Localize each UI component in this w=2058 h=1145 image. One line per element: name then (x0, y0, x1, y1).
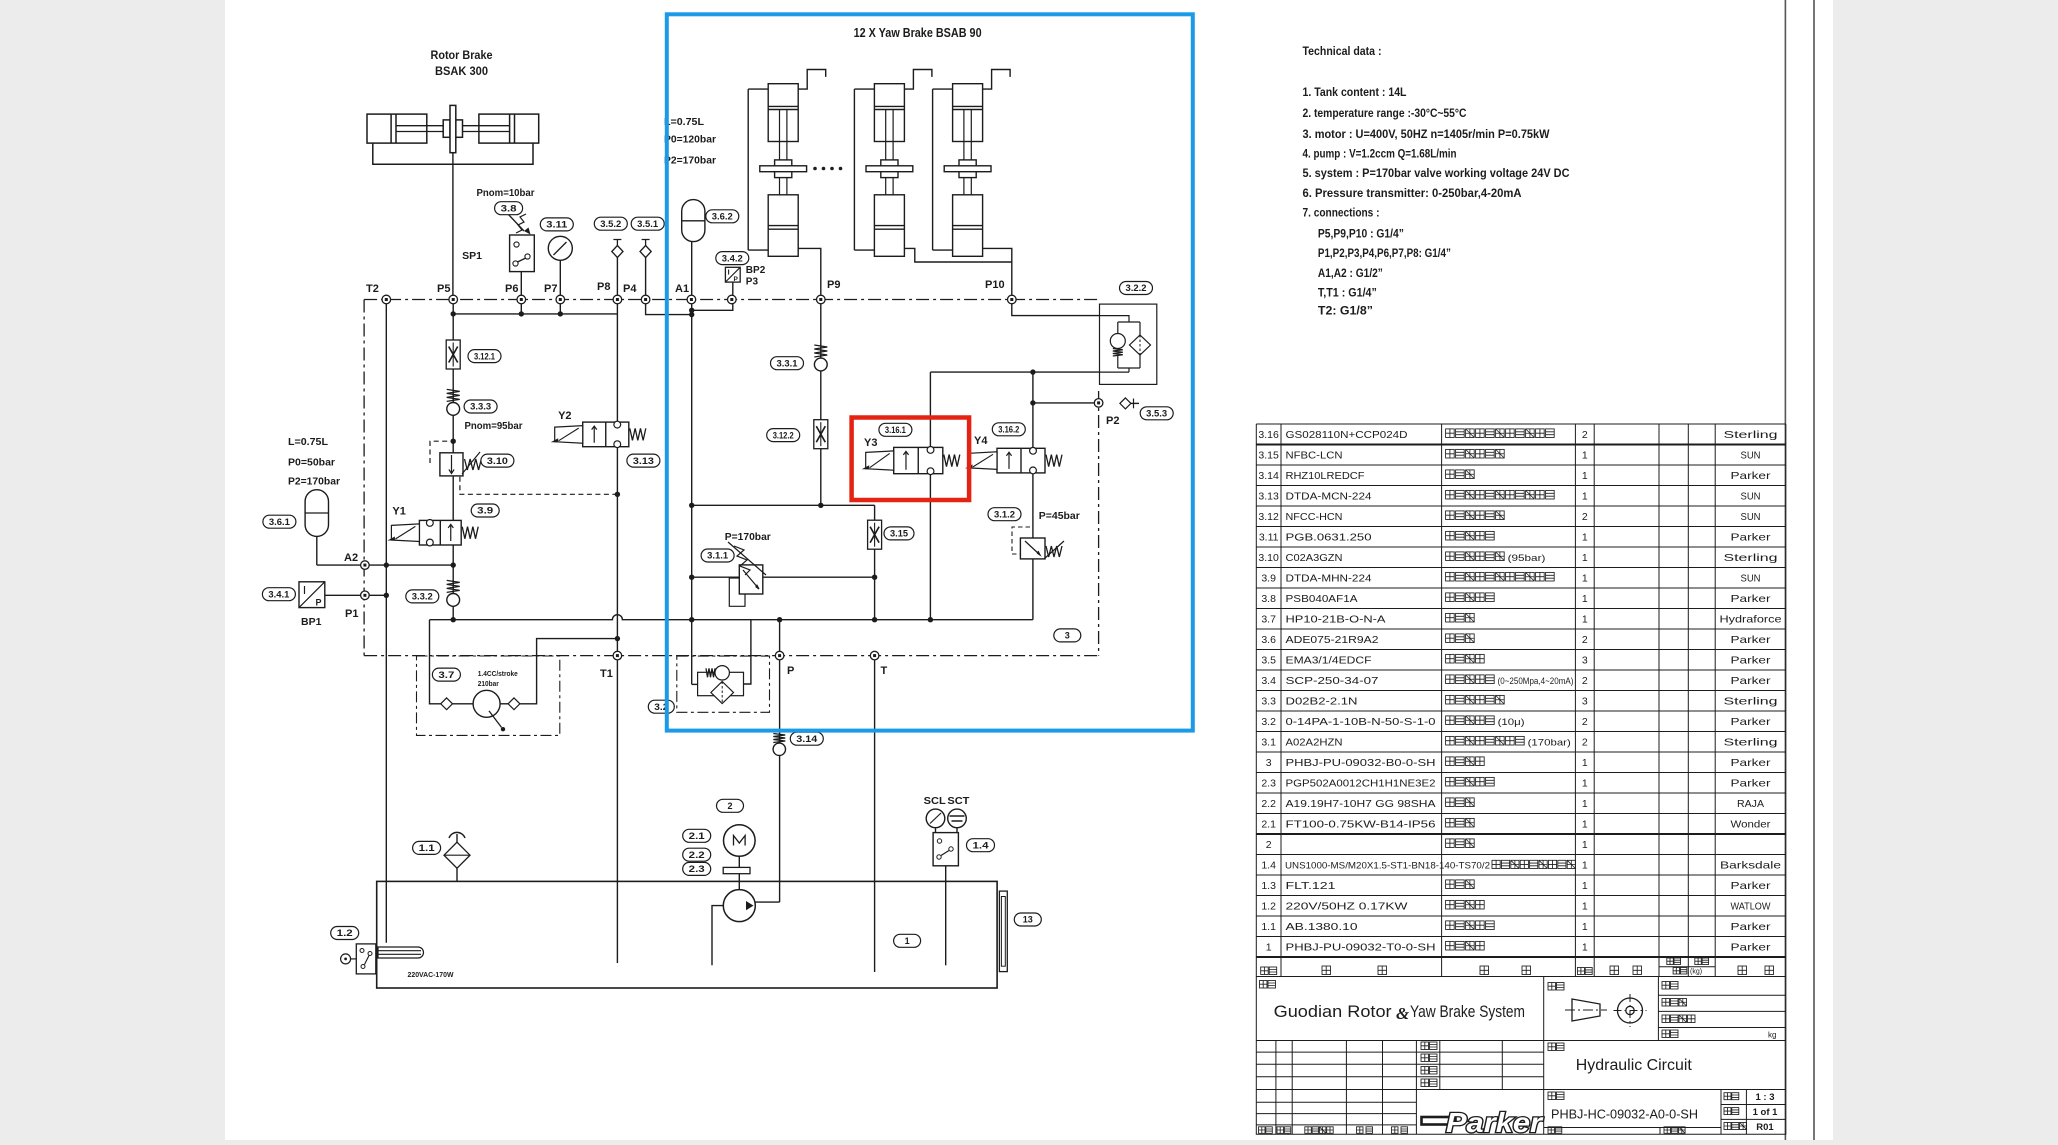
svg-text:P9: P9 (827, 279, 840, 291)
svg-text:3: 3 (1266, 757, 1272, 769)
node port P3 (728, 295, 737, 304)
label 3.4.2 (716, 252, 749, 265)
relief valve 3.1.2 P=45bar (1012, 527, 1064, 559)
svg-text:1: 1 (905, 936, 910, 946)
label 3.1.2 (988, 508, 1021, 521)
svg-text:A19.19H7-10H7 GG 98SHA: A19.19H7-10H7 GG 98SHA (1286, 798, 1436, 810)
solenoid valve Y2 (3.13) (551, 421, 646, 447)
svg-text:3.9: 3.9 (1261, 573, 1276, 585)
check valve 3.14 (773, 734, 785, 756)
svg-text:(95bar): (95bar) (1508, 553, 1546, 564)
svg-text:2.3: 2.3 (1261, 778, 1276, 790)
svg-text:1: 1 (1582, 552, 1588, 564)
wire hand pump internal right (500, 703, 508, 705)
svg-text:Y1: Y1 (392, 505, 405, 517)
wire SCT stem (956, 828, 958, 833)
wire SCL stem (935, 828, 937, 833)
wire Y2 pilot drain dashed (460, 477, 618, 495)
svg-text:DTDA-MCN-224: DTDA-MCN-224 (1286, 491, 1372, 503)
temp gauge SCT (948, 809, 967, 828)
label 3.3.1 (771, 357, 804, 370)
svg-text:3.4: 3.4 (1261, 675, 1276, 687)
pressure reducing valve 3.10 (440, 452, 482, 476)
svg-text:Sterling: Sterling (1724, 429, 1778, 441)
svg-text:SUN: SUN (1741, 511, 1761, 523)
wire manifold dash-dot top boundary (364, 299, 1099, 301)
svg-text:HP10-21B-O-N-A: HP10-21B-O-N-A (1286, 614, 1386, 626)
wire T column to tank (874, 656, 876, 972)
svg-text:Parker: Parker (1731, 593, 1772, 605)
svg-text:BP2: BP2 (746, 265, 766, 276)
wire SP1 drop (520, 272, 522, 314)
label 3.10 (481, 454, 514, 467)
svg-text:1.2: 1.2 (1261, 901, 1276, 913)
svg-text:Parker: Parker (1731, 757, 1772, 769)
svg-text:D02B2-2.1N: D02B2-2.1N (1286, 696, 1358, 708)
svg-text:3.14: 3.14 (1258, 470, 1279, 482)
svg-text:Parker: Parker (1731, 921, 1772, 933)
svg-text:Wonder: Wonder (1731, 819, 1772, 831)
rotor brake BSAK 300 caliper assembly (367, 105, 539, 164)
svg-text:Hydraforce: Hydraforce (1720, 614, 1782, 626)
svg-text:2.3: 2.3 (689, 864, 705, 874)
wire line B (692, 576, 875, 578)
svg-text:3.13: 3.13 (1258, 491, 1279, 503)
wire breather drop (456, 868, 458, 881)
svg-text:A1,A2 : G1/2”: A1,A2 : G1/2” (1318, 266, 1383, 280)
svg-text:&: & (1396, 1004, 1410, 1023)
svg-text:AB.1380.10: AB.1380.10 (1286, 921, 1358, 933)
svg-text:T1: T1 (600, 668, 613, 680)
svg-text:Parker: Parker (1731, 532, 1772, 544)
hand pump 3.7 (473, 690, 505, 731)
svg-text:3.5.3: 3.5.3 (1146, 409, 1167, 419)
svg-text:Y4: Y4 (974, 435, 988, 447)
throttle valve 3.15 (868, 520, 882, 549)
svg-text:Pnom=95bar: Pnom=95bar (465, 420, 523, 432)
svg-text:A1: A1 (675, 283, 689, 295)
svg-text:2.2: 2.2 (1261, 798, 1276, 810)
svg-text:SCL: SCL (924, 796, 946, 807)
accumulator 3.6.2 (682, 200, 705, 242)
svg-text:P1,P2,P3,P4,P6,P7,P8: G1/4”: P1,P2,P3,P4,P6,P7,P8: G1/4” (1318, 246, 1451, 260)
svg-text:Parker: Parker (1731, 942, 1772, 954)
svg-text:P=170bar: P=170bar (725, 531, 771, 543)
label 3.8 (495, 202, 523, 215)
svg-text:Parker: Parker (1731, 634, 1772, 646)
svg-text:FLT.121: FLT.121 (1286, 880, 1336, 892)
wire line A (692, 504, 875, 506)
svg-text:1: 1 (1582, 532, 1588, 544)
wire yaw group2 drain (905, 248, 1012, 262)
svg-text:(10μ): (10μ) (1498, 717, 1525, 728)
node port P10 (1008, 295, 1017, 304)
svg-text:3.12.2: 3.12.2 (773, 430, 794, 440)
svg-text:SUN: SUN (1741, 491, 1761, 503)
wire manifold boundary left edge (363, 300, 365, 656)
svg-text:1 : 3: 1 : 3 (1755, 1092, 1774, 1103)
label 3.7 (432, 668, 460, 681)
svg-text:1: 1 (1582, 880, 1588, 892)
svg-text:PHBJ-PU-09032-T0-0-SH: PHBJ-PU-09032-T0-0-SH (1286, 942, 1436, 954)
label 2.3 (683, 862, 711, 875)
svg-text:2: 2 (1582, 675, 1588, 687)
label 3.6.1 (263, 515, 296, 528)
svg-text:4. pump : V=1.2ccm Q=1.68L/min: 4. pump : V=1.2ccm Q=1.68L/min (1303, 147, 1457, 161)
svg-text:DTDA-MHN-224: DTDA-MHN-224 (1286, 573, 1372, 585)
wire P5 column (452, 300, 454, 620)
pressure switch SP1 (3.8) (508, 214, 534, 272)
node port T1 (613, 651, 622, 660)
wire P3 link (692, 282, 733, 310)
svg-text:3.16: 3.16 (1258, 429, 1279, 441)
node port P1 (361, 591, 370, 600)
label 3.12.1 (468, 350, 501, 363)
svg-text:PSB040AF1A: PSB040AF1A (1286, 593, 1358, 605)
svg-text:2: 2 (1582, 511, 1588, 523)
svg-text:3.15: 3.15 (1258, 450, 1279, 462)
svg-text:3. motor : U=400V, 50HZ n=14: 3. motor : U=400V, 50HZ n=1405r/min P=0.… (1303, 127, 1551, 141)
wire manifold boundary bottom edge (364, 655, 1099, 657)
svg-text:ADE075-21R9A2: ADE075-21R9A2 (1286, 634, 1379, 646)
wire P9 column (820, 300, 822, 506)
svg-text:1: 1 (1266, 942, 1272, 954)
node port A1 (687, 295, 696, 304)
node port T (870, 651, 879, 660)
wire Y4 column (1032, 372, 1034, 620)
svg-text:Y3: Y3 (864, 437, 877, 449)
svg-text:Sterling: Sterling (1724, 737, 1778, 749)
gear pump 2.3 (723, 890, 755, 922)
svg-text:3.4.1: 3.4.1 (268, 589, 289, 599)
node port P5 (449, 295, 458, 304)
svg-text:Hydraulic Circuit: Hydraulic Circuit (1576, 1057, 1693, 1074)
svg-text:3.3: 3.3 (1261, 696, 1276, 708)
Parker logo (1422, 1107, 1544, 1138)
svg-text:NFCC-HCN: NFCC-HCN (1286, 511, 1343, 523)
svg-text:3.4.2: 3.4.2 (722, 253, 743, 263)
yaw brake cylinder group 1 (748, 70, 826, 257)
svg-text:1.1: 1.1 (419, 843, 435, 853)
svg-text:3.6: 3.6 (1261, 634, 1276, 646)
wire 3.10 pilot dashed (430, 441, 453, 463)
svg-text:3.2: 3.2 (1261, 716, 1276, 728)
svg-text:2: 2 (1582, 429, 1588, 441)
yaw brake cylinder group 2 (854, 70, 932, 257)
svg-text:3.3.1: 3.3.1 (777, 358, 798, 368)
svg-text:2: 2 (1266, 839, 1272, 851)
svg-text:EMA3/1/4EDCF: EMA3/1/4EDCF (1286, 655, 1372, 667)
svg-text:P7: P7 (544, 283, 557, 295)
svg-text:(0~250Mpa,4~20mA): (0~250Mpa,4~20mA) (1498, 676, 1574, 687)
label 3.3.2 (406, 590, 439, 603)
svg-text:Parker: Parker (1731, 778, 1772, 790)
solenoid valve Y4 (3.16.2) (965, 447, 1062, 473)
svg-text:1: 1 (1582, 470, 1588, 482)
svg-text:2.1: 2.1 (1261, 819, 1276, 831)
svg-text:Parker: Parker (1731, 716, 1772, 728)
svg-text:T2: T2 (366, 283, 379, 295)
pressure transmitter BP2 (3.4.2) (725, 267, 740, 283)
label 2.2 (683, 848, 711, 861)
title block texts (1260, 981, 1276, 989)
label 3.13 (627, 454, 660, 467)
label 13 (1014, 913, 1041, 926)
svg-text:SUN: SUN (1741, 450, 1761, 462)
svg-text:3: 3 (1582, 655, 1588, 667)
wire P2 line (1033, 402, 1099, 404)
svg-text:1.4: 1.4 (1261, 860, 1276, 872)
svg-text:1: 1 (1582, 839, 1588, 851)
svg-text:Technical data :: Technical data : (1303, 44, 1382, 58)
svg-text:3.13: 3.13 (633, 456, 654, 466)
label 3.5.2 (594, 217, 627, 230)
svg-text:PHBJ-HC-09032-A0-0-SH: PHBJ-HC-09032-A0-0-SH (1551, 1107, 1698, 1122)
node port P8 (613, 295, 622, 304)
svg-text:6. Pressure transmitter: 0-25: 6. Pressure transmitter: 0-250bar,4-20mA (1303, 186, 1522, 200)
svg-text:3.12.1: 3.12.1 (474, 351, 495, 361)
svg-text:Barksdale: Barksdale (1720, 860, 1781, 872)
node port P (775, 651, 784, 660)
label 3.1.1 (701, 549, 734, 562)
svg-text:3.1.1: 3.1.1 (707, 551, 728, 561)
svg-text:3.9: 3.9 (477, 506, 493, 516)
svg-text:kg: kg (1768, 1031, 1776, 1040)
node port P4 (641, 295, 650, 304)
label 3.12.2 (767, 429, 800, 442)
svg-text:3.11: 3.11 (1259, 532, 1279, 544)
check valve 3.3.3 (447, 389, 460, 415)
svg-text:13: 13 (1023, 915, 1033, 925)
svg-text:1: 1 (1582, 757, 1588, 769)
svg-text:1: 1 (1582, 491, 1588, 503)
svg-text:Parker: Parker (1731, 880, 1772, 892)
wire accumulator 3.6.1 drop (316, 536, 318, 565)
svg-text:210bar: 210bar (478, 681, 499, 688)
svg-text:NFBC-LCN: NFBC-LCN (1286, 450, 1343, 462)
svg-text:A2: A2 (344, 552, 358, 564)
pump line filter 3.2 group (677, 656, 770, 712)
wire A2 line (317, 564, 453, 566)
svg-text:3.2.2: 3.2.2 (1126, 283, 1147, 293)
svg-text:Rotor Brake: Rotor Brake (431, 48, 493, 62)
label 3.14 (790, 732, 823, 745)
high pressure filter 3.2.2 (1100, 304, 1157, 384)
svg-text:220V/50HZ 0.17KW: 220V/50HZ 0.17KW (1286, 901, 1408, 913)
svg-text:P: P (316, 598, 322, 608)
label 2.1 (683, 829, 711, 842)
wire rotor brake to P5 (452, 153, 454, 300)
level gauge SCL (926, 809, 945, 828)
svg-text:1: 1 (1582, 573, 1588, 585)
svg-text:1.4: 1.4 (973, 840, 989, 850)
svg-text:3.7: 3.7 (438, 670, 454, 680)
electric motor 2.1 (724, 825, 756, 857)
pressure gauge 3.11 (548, 236, 572, 260)
pressure transmitter BP1 (3.4.1) (299, 582, 325, 608)
svg-text:Parker: Parker (1731, 675, 1772, 687)
svg-text:3: 3 (1065, 631, 1070, 641)
label 3.16.2 (992, 423, 1025, 436)
svg-text:3.5.1: 3.5.1 (637, 219, 658, 229)
svg-text:2: 2 (1582, 716, 1588, 728)
svg-text:SCP-250-34-07: SCP-250-34-07 (1286, 675, 1379, 687)
svg-text:220VAC-170W: 220VAC-170W (408, 970, 455, 979)
svg-text:3.5.2: 3.5.2 (600, 219, 621, 229)
svg-text:3.10: 3.10 (1258, 552, 1279, 564)
label 3.2.2 (1120, 282, 1153, 295)
svg-text:Yaw Brake System: Yaw Brake System (1410, 1002, 1525, 1021)
svg-text:P10: P10 (985, 279, 1005, 291)
hand pump 3.7 dashed enclosure (417, 656, 560, 735)
svg-text:7. connections :: 7. connections : (1303, 206, 1380, 220)
level/temperature switch 1.4 (933, 833, 958, 866)
wire manifold boundary right edge (1098, 391, 1100, 656)
wire hand pump suction link (520, 639, 618, 704)
svg-text:3.5: 3.5 (1261, 655, 1276, 667)
svg-text:3.6.1: 3.6.1 (269, 517, 290, 527)
svg-text:P0=50bar: P0=50bar (288, 457, 335, 469)
svg-text:Pnom=10bar: Pnom=10bar (477, 187, 535, 199)
svg-text:PGP502A0012CH1H1NE3E2: PGP502A0012CH1H1NE3E2 (1286, 778, 1436, 790)
svg-text:2. temperature range :-30°C~55: 2. temperature range :-30°C~55°C (1303, 106, 1467, 120)
label 3.9 (471, 504, 499, 517)
svg-text:R01: R01 (1756, 1122, 1774, 1133)
tank 1 (377, 881, 997, 988)
wire T1 column (616, 257, 618, 963)
svg-text:FT100-0.75KW-B14-IP56: FT100-0.75KW-B14-IP56 (1286, 819, 1436, 831)
svg-text:(170bar): (170bar) (1528, 738, 1571, 749)
svg-text:P2=170bar: P2=170bar (288, 476, 340, 488)
wire hand pump internal left (453, 703, 474, 705)
node port P9 (817, 295, 826, 304)
svg-text:PHBJ-PU-09032-B0-0-SH: PHBJ-PU-09032-B0-0-SH (1286, 757, 1436, 769)
svg-text:Sterling: Sterling (1724, 552, 1778, 564)
svg-text:WATLOW: WATLOW (1731, 901, 1771, 913)
red highlight box around Y3 (852, 418, 970, 501)
svg-text:P6: P6 (505, 283, 518, 295)
label 3.2 (648, 700, 674, 713)
svg-text:3.3.2: 3.3.2 (412, 592, 433, 602)
dots between cylinder groups (813, 167, 817, 171)
svg-text:12 X Yaw Brake BSAB 90: 12 X Yaw Brake BSAB 90 (854, 26, 982, 40)
node port P6 (517, 295, 526, 304)
svg-text:2.1: 2.1 (689, 831, 705, 841)
svg-text:5. system : P=170bar valve w: 5. system : P=170bar valve working volta… (1303, 166, 1570, 180)
svg-text:UNS1000-MS/M20X1.5-ST1-BN18-14: UNS1000-MS/M20X1.5-ST1-BN18-140-TS70/2 (1285, 861, 1490, 872)
svg-text:1: 1 (1582, 614, 1588, 626)
wire 3.15 column (874, 505, 876, 619)
svg-text:T: T (881, 665, 888, 677)
svg-text:3.16.1: 3.16.1 (885, 425, 906, 435)
svg-text:3.15: 3.15 (890, 529, 908, 539)
svg-text:P5,P9,P10 : G1/4”: P5,P9,P10 : G1/4” (1318, 227, 1404, 241)
svg-text:(kg): (kg) (1690, 969, 1702, 976)
svg-text:Y2: Y2 (558, 410, 571, 422)
wire P1 line (325, 594, 387, 596)
wire pump suction (712, 906, 723, 966)
wire line D (430, 615, 1033, 620)
check valve 3.3.2 (447, 580, 460, 606)
wire yaw supply line y372 (930, 371, 1129, 373)
svg-text:3.1.2: 3.1.2 (994, 509, 1015, 519)
label 3.11 (540, 218, 573, 231)
svg-text:A02A2HZN: A02A2HZN (1286, 737, 1343, 749)
hand pump check valve right (508, 698, 520, 710)
svg-text:1.2: 1.2 (337, 928, 353, 938)
svg-text:Parker: Parker (1731, 655, 1772, 667)
svg-text:RHZ10LREDCF: RHZ10LREDCF (1286, 470, 1365, 482)
svg-text:1: 1 (1582, 798, 1588, 810)
svg-text:2: 2 (727, 801, 732, 811)
wire P7 gauge drop (559, 260, 561, 314)
svg-text:1.4CC/stroke: 1.4CC/stroke (478, 671, 518, 678)
heater 1.2 (341, 944, 424, 974)
svg-text:3.11: 3.11 (546, 220, 567, 230)
wire P column (779, 620, 781, 902)
svg-text:1: 1 (1582, 778, 1588, 790)
svg-text:3.3.3: 3.3.3 (470, 402, 491, 412)
throttle valve 3.12.2 (814, 420, 828, 449)
svg-text:3.8: 3.8 (1261, 593, 1276, 605)
node port A2 (361, 561, 370, 570)
projection symbol (1565, 994, 1647, 1027)
yaw brake cylinder group 3 (933, 70, 1011, 257)
level indicator 13 (999, 891, 1007, 972)
label 3.3.3 (464, 400, 497, 413)
label 1.2 (331, 927, 359, 940)
BOM parts table grid (1256, 424, 1786, 977)
svg-text:1: 1 (1582, 450, 1588, 462)
svg-text:2: 2 (1582, 737, 1588, 749)
label 1.1 (413, 841, 441, 854)
wire hand pump discharge drop (430, 620, 441, 704)
svg-text:P0=120bar: P0=120bar (664, 134, 716, 146)
svg-text:1 of 1: 1 of 1 (1753, 1107, 1779, 1118)
label 3.15 (884, 527, 914, 540)
BOM rows text (1258, 429, 1777, 441)
test point 3.5.2 (612, 240, 623, 258)
svg-text:PGB.0631.250: PGB.0631.250 (1286, 532, 1372, 544)
svg-text:C02A3GZN: C02A3GZN (1286, 552, 1343, 564)
coupling 2.2 (723, 867, 750, 873)
svg-text:1. Tank content : 14L: 1. Tank content : 14L (1303, 85, 1407, 99)
svg-text:3.8: 3.8 (501, 203, 517, 213)
svg-text:T,T1 : G1/4”: T,T1 : G1/4” (1318, 286, 1377, 300)
svg-text:Guodian Rotor: Guodian Rotor (1274, 1002, 1392, 1021)
relief valve 3.1.1 P=170bar (728, 542, 766, 606)
label block 3 (1054, 629, 1081, 642)
svg-text:1: 1 (1582, 819, 1588, 831)
label 2 (717, 799, 744, 812)
svg-text:L=0.75L: L=0.75L (288, 436, 329, 448)
test point 3.5.1 (640, 240, 651, 258)
svg-text:BP1: BP1 (301, 616, 322, 628)
svg-text:3.12: 3.12 (1258, 511, 1279, 523)
accumulator 3.6.1 (305, 490, 328, 537)
svg-text:P2: P2 (1106, 415, 1119, 427)
label 3.5.1 (631, 217, 664, 230)
wire P6 gauge tap line (453, 313, 617, 315)
svg-text:1.1: 1.1 (1261, 921, 1276, 933)
label 3.16.1 (879, 423, 912, 436)
wire filter 3.2 outlet riser (744, 620, 751, 684)
svg-text:Parker: Parker (1731, 470, 1772, 482)
svg-text:BSAK 300: BSAK 300 (435, 64, 488, 78)
svg-text:1.3: 1.3 (1261, 880, 1276, 892)
svg-text:SCT: SCT (947, 796, 969, 807)
svg-text:RAJA: RAJA (1737, 798, 1764, 810)
